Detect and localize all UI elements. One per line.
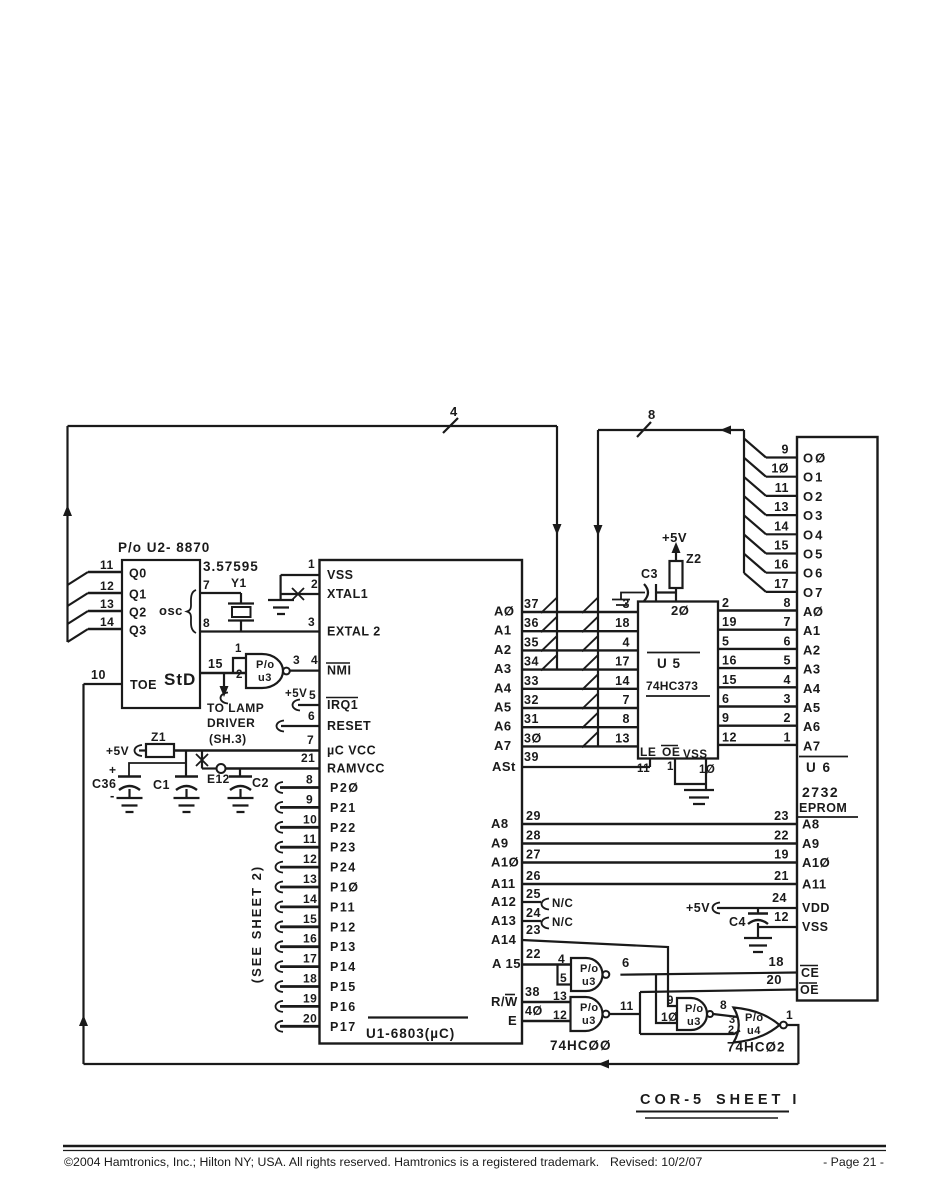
svg-text:28: 28 [526,829,541,843]
svg-text:P/o: P/o [685,1003,704,1015]
svg-text:12: 12 [774,910,789,924]
svg-text:14: 14 [100,615,114,629]
wire U1 P15 pin 18 [276,981,284,992]
gate U3c NAND pins 13 12 to 11 [571,997,603,1031]
wire gate input tie [233,658,246,673]
svg-text:(SEE SHEET 2): (SEE SHEET 2) [249,865,264,983]
svg-text:VSS: VSS [802,920,829,934]
svg-text:4: 4 [311,653,318,667]
svg-text:6: 6 [784,634,791,648]
svg-text:8: 8 [623,712,630,726]
bus tap 8-bus row A1 [582,616,599,632]
svg-text:9: 9 [782,443,789,457]
svg-text:22: 22 [526,947,541,961]
svg-text:A1Ø: A1Ø [802,855,830,870]
wire gate tie pin5 [558,965,572,985]
svg-text:©2004 Hamtronics, Inc.; Hilto: ©2004 Hamtronics, Inc.; Hilton NY; USA. … [64,1155,599,1169]
svg-text:A7: A7 [803,738,821,753]
svg-text:17: 17 [303,952,317,966]
svg-text:µC VCC: µC VCC [327,744,376,758]
svg-text:A13: A13 [491,913,516,928]
svg-text:6: 6 [622,955,630,970]
wire Z2 to U5 pin 20 [675,588,677,602]
svg-text:11: 11 [100,558,114,572]
wire NMI [290,669,320,671]
svg-text:O6: O6 [803,566,824,581]
squiggle +5V Z1 [135,745,143,756]
wire U3d out to U4 pin 3 [713,1014,738,1017]
svg-text:2: 2 [236,669,243,681]
svg-text:AØ: AØ [494,604,515,619]
svg-text:74HC373: 74HC373 [646,679,698,693]
svg-text:11: 11 [775,481,789,495]
svg-text:74HCØØ: 74HCØØ [550,1038,612,1053]
wire Z1 to uCVCC pin 7 [174,749,320,752]
arrow down on 8-bus [594,525,603,536]
svg-text:A1: A1 [803,623,821,638]
svg-text:R/W: R/W [491,994,518,1009]
svg-text:Y1: Y1 [231,576,247,590]
wire U1 P23 pin 11 [276,842,284,853]
svg-text:u3: u3 [687,1016,701,1028]
svg-text:31: 31 [524,712,539,726]
svg-text:24: 24 [772,891,787,905]
svg-text:O3: O3 [803,508,824,523]
svg-text:A2: A2 [803,642,821,657]
svg-text:10: 10 [91,668,106,682]
svg-text:u3: u3 [582,1015,596,1027]
svg-text:A9: A9 [491,836,509,851]
svg-text:RESET: RESET [327,719,371,733]
wire U1 P21 pin 9 [276,802,284,813]
wire A2 U5 to U6 [718,648,797,650]
svg-text:A3: A3 [803,662,821,677]
svg-text:OE: OE [662,745,680,759]
svg-text:14: 14 [303,892,317,906]
rule under EPROM [798,816,858,818]
svg-text:XTAL1: XTAL1 [327,587,368,601]
svg-text:5: 5 [560,971,567,985]
arrow down on 4-bus [553,524,562,535]
wire A10 U1 to U6 [522,861,797,863]
wire A6 U5 to U6 [718,725,797,727]
rule above U6 [799,756,848,758]
svg-text:Revised: 10/2/07: Revised: 10/2/07 [610,1155,702,1169]
svg-text:osc: osc [159,603,183,618]
wire U2 pin 8 EXTAL2 [200,630,320,632]
svg-text:A2: A2 [494,642,512,657]
wire U2 Q3 pin 14 [88,628,122,630]
wire C36 branch [129,751,186,777]
svg-text:22: 22 [774,829,789,843]
svg-text:23: 23 [774,809,789,823]
svg-text:2: 2 [728,1024,735,1036]
svg-text:VSS: VSS [683,749,708,761]
svg-text:29: 29 [526,809,541,823]
wire ASt up to U5 LE [649,759,651,768]
wire A1 U1 to U5 [522,630,638,632]
svg-text:8: 8 [203,616,210,630]
wire 8-bus vertical [597,430,599,746]
svg-text:8: 8 [648,407,656,422]
wire A4 U1 to U5 [522,688,638,690]
svg-text:E12: E12 [207,772,230,786]
svg-text:14: 14 [615,674,630,688]
wire A3 U5 to U6 [718,667,797,669]
X mark jumper E12 [196,754,208,766]
svg-text:13: 13 [303,872,317,886]
wire O3 [766,514,797,516]
op-amp gate U3a NAND [246,654,283,688]
svg-text:13: 13 [774,500,789,514]
wire to lamp driver branch [223,673,225,688]
svg-text:A4: A4 [494,680,512,695]
svg-text:A14: A14 [491,932,517,947]
ground under C4 [744,938,772,952]
svg-text:1Ø: 1Ø [771,462,789,476]
ground under C2 [228,798,254,812]
wire A11 U1 to U6 [522,883,797,885]
svg-text:20: 20 [767,972,782,987]
svg-text:15: 15 [208,657,223,671]
svg-text:1: 1 [786,1008,793,1022]
wire 4-bus vertical [556,426,558,670]
svg-text:18: 18 [615,616,630,630]
svg-text:7: 7 [203,578,210,592]
svg-text:O2: O2 [803,489,824,504]
svg-text:C4: C4 [729,915,746,929]
svg-text:36: 36 [524,616,539,630]
wire A2 U1 to U5 [522,649,638,651]
svg-text:11: 11 [303,832,317,846]
svg-text:5: 5 [309,688,316,702]
svg-text:4: 4 [450,404,458,419]
bus tap 4-bus row A2 [541,635,558,651]
wire C1 drop [185,751,187,777]
svg-text:17: 17 [615,655,630,669]
svg-text:P1Ø: P1Ø [330,881,360,895]
arrow up +5V [675,551,677,561]
svg-text:7: 7 [784,615,791,629]
bus tap 4-bus row A0 [541,597,558,613]
svg-text:34: 34 [524,655,539,669]
svg-text:Q3: Q3 [129,624,147,638]
svg-text:Q0: Q0 [129,567,147,581]
svg-text:4Ø: 4Ø [525,1004,543,1018]
rule above U5 [647,652,700,654]
bus tap 4-bus row A3 [541,655,558,671]
bus tap 8-bus row A3 [582,655,599,671]
wire O0 [766,456,797,458]
svg-text:StD: StD [164,670,196,689]
squiggle RESET [277,721,285,732]
wire bottom return to TOE [84,1063,799,1065]
IC U1 6803 box [320,560,523,1044]
wire A7 U5 to U6 [718,744,797,746]
wire ASt pin 39 [522,766,650,768]
svg-text:A8: A8 [491,816,509,831]
svg-text:21: 21 [301,751,315,765]
wire U1 P24 pin 12 [276,862,284,873]
wire top 4-bit bus horizontal [68,425,558,427]
wire left bus vertical [66,426,68,642]
underline title [636,1111,789,1113]
arrow left on 8-bus [720,426,731,435]
svg-text:9: 9 [667,995,674,1007]
wire U1 P10 pin 13 [276,882,284,893]
wire TOE [84,683,123,685]
ground under C1 [174,798,200,812]
svg-text:16: 16 [774,558,789,572]
wire A13 N/C stub [522,920,541,922]
svg-text:AØ: AØ [803,604,824,619]
svg-text:1Ø: 1Ø [661,1010,678,1024]
gate U3b NAND pins 4 5 to 6 [571,958,603,991]
rule below 74HC373 [646,695,710,697]
svg-text:VSS: VSS [327,568,354,582]
wire RESET pin 6 [281,725,320,727]
svg-text:P17: P17 [330,1020,357,1034]
svg-text:16: 16 [303,932,317,946]
bus tap O0 [744,439,766,458]
wire TOE vertical down [82,684,84,1064]
svg-text:CE: CE [801,966,819,980]
bus tap 8-bus row A2 [582,635,599,651]
svg-text:6: 6 [308,709,315,723]
ground near XTAL1 [268,600,294,614]
svg-text:U 6: U 6 [806,760,832,775]
wire U1 P13 pin 16 [276,941,284,952]
svg-text:A12: A12 [491,894,516,909]
svg-text:OØ: OØ [803,451,827,466]
svg-text:38: 38 [525,985,540,999]
wire A14 pin 23 [522,940,677,1006]
wire C3 to ground [621,593,645,600]
svg-text:+5V: +5V [686,901,710,915]
bus tap O3 [744,496,766,515]
gate U3d NAND pins 9 10 to 8 [677,998,707,1030]
wire A5 U5 to U6 [718,705,797,707]
svg-text:N/C: N/C [552,898,573,910]
svg-text:C1: C1 [153,778,170,792]
svg-text:15: 15 [303,912,317,926]
svg-text:4: 4 [558,952,565,966]
svg-text:20: 20 [303,1011,317,1025]
svg-text:32: 32 [524,693,539,707]
svg-text:P/o: P/o [580,963,599,975]
svg-text:u3: u3 [582,976,596,988]
svg-text:2732: 2732 [802,784,839,800]
svg-text:O5: O5 [803,547,824,562]
wire U5 OE pin 1 stub [675,759,706,785]
svg-text:Z2: Z2 [686,552,702,566]
wire A1 U5 to U6 [718,629,797,631]
svg-text:+5V: +5V [662,530,687,545]
svg-text:TO LAMP: TO LAMP [207,701,264,715]
svg-text:P14: P14 [330,960,357,974]
IC U2 8870 box [122,560,200,708]
wire gate U3c out to OE node [609,1013,640,1015]
wire O7 [766,591,797,593]
bus slash 8 [637,422,651,437]
wire U2 pin 7 to crystal [200,592,241,594]
label U1-6803 rule [368,1016,468,1018]
wire OE node to U4 pin 2 [640,1031,740,1035]
svg-text:u3: u3 [258,672,272,684]
bus tap O5 [744,535,766,554]
ground under U5 [684,790,714,804]
wire U1 P16 pin 19 [276,1001,284,1012]
wire ground drop [280,575,282,600]
svg-text:A6: A6 [494,719,512,734]
X mark on XTAL1 wire [292,588,304,600]
svg-text:N/C: N/C [552,917,573,929]
bus tap O4 [744,515,766,534]
svg-text:P/o: P/o [256,659,275,671]
svg-text:-: - [110,788,115,803]
wire O6 [766,572,797,574]
wire U1 P17 pin 20 [276,1021,284,1032]
svg-text:A5: A5 [803,700,821,715]
svg-text:8: 8 [306,773,313,787]
svg-text:OE: OE [800,983,819,997]
svg-text:13: 13 [615,731,630,745]
wire U1 P20 pin 8 [276,782,284,793]
svg-text:A8: A8 [802,817,820,832]
svg-text:18: 18 [303,972,317,986]
wire A7 U1 to U5 [522,745,638,747]
ground under C36 [117,798,143,812]
svg-text:15: 15 [722,673,737,687]
wire U1 XTAL1 pin 2 [281,593,320,595]
svg-text:21: 21 [774,869,789,883]
svg-text:9: 9 [306,792,313,806]
bus tap O1 [744,458,766,477]
svg-text:10: 10 [303,812,317,826]
svg-text:A11: A11 [802,877,827,892]
bus tap 8-bus row A7 [582,731,599,747]
bus tap O7 [744,573,766,592]
svg-text:24: 24 [526,906,541,920]
brace OSC [187,590,196,633]
svg-text:Q2: Q2 [129,606,147,620]
wire data bus vertical [743,430,745,573]
wire U2 Q0 pin 11 [88,571,122,573]
wire A0 U1 to U5 [522,611,638,613]
bus tap 8-bus row A4 [582,674,599,690]
svg-text:2: 2 [722,596,729,610]
svg-text:16: 16 [722,654,737,668]
svg-text:23: 23 [526,923,541,937]
svg-text:TOE: TOE [130,678,157,692]
wire A12 N/C stub [522,901,541,903]
arrow up on left bus [63,505,72,516]
svg-text:8: 8 [720,998,727,1012]
wire U1 P22 pin 10 [276,822,284,833]
svg-text:6: 6 [722,692,729,706]
svg-text:RAMVCC: RAMVCC [327,762,385,776]
wire U1 P14 pin 17 [276,961,284,972]
svg-text:13: 13 [553,989,567,1003]
bus tap O6 [744,554,766,573]
svg-text:A4: A4 [803,681,821,696]
squiggle IRQ1 [293,700,301,711]
svg-text:4: 4 [623,635,630,649]
svg-text:P21: P21 [330,801,357,815]
svg-text:P12: P12 [330,920,357,934]
svg-text:- Page 21 -: - Page 21 - [823,1155,884,1169]
svg-text:EXTAL 2: EXTAL 2 [327,625,381,639]
wire OE node vertical [639,992,641,1034]
wire O5 [766,552,797,554]
svg-text:14: 14 [774,519,789,533]
wire O2 [766,495,797,497]
wire +5V to Z1 [139,749,146,751]
wire 8-bus top horizontal [598,429,744,431]
svg-text:2Ø: 2Ø [671,603,689,618]
svg-text:P23: P23 [330,841,357,855]
wire A6 U1 to U5 [522,726,638,728]
wire A3 U1 to U5 [522,668,638,670]
svg-text:P11: P11 [330,900,356,914]
gate U4 NOR pins 3 2 to 1 [734,1008,780,1043]
wire R/W pin 38 [522,1001,571,1003]
svg-text:3: 3 [308,615,315,629]
svg-text:A1Ø: A1Ø [491,855,519,870]
svg-text:P13: P13 [330,940,357,954]
svg-text:A11: A11 [491,876,516,891]
wire U5 VSS pin 10 stub [705,759,707,791]
IC U6 2732 EPROM box [797,437,878,1001]
wire VDD pin 24 [717,907,797,909]
bus tap 8-bus row A5 [582,693,599,709]
svg-text:12: 12 [722,730,737,744]
footer rule [63,1145,886,1147]
svg-text:A7: A7 [494,738,512,753]
svg-text:A 15: A 15 [492,956,521,971]
svg-text:37: 37 [524,597,539,611]
svg-text:3.57595: 3.57595 [203,559,259,574]
wire StD to gate [200,672,246,674]
svg-text:13: 13 [100,597,114,611]
svg-text:5: 5 [784,654,791,668]
wire A4 U5 to U6 [718,686,797,688]
svg-text:+: + [109,763,117,777]
wire VSS pin 12 [758,926,797,928]
svg-text:+5V: +5V [285,688,307,700]
svg-text:9: 9 [722,711,729,725]
svg-text:P2Ø: P2Ø [330,781,360,795]
wire CE from gate U3b [620,973,797,975]
svg-text:O7: O7 [803,585,824,600]
wire U2 Q1 pin 12 [88,592,122,594]
svg-text:A9: A9 [802,836,820,851]
svg-text:7: 7 [307,733,314,747]
wire IRQ1 pin 5 [298,704,320,706]
svg-text:1: 1 [308,557,315,571]
svg-text:(SH.3): (SH.3) [209,732,247,746]
ground near C3 [612,600,630,606]
squiggle VDD [713,903,721,914]
svg-text:27: 27 [526,848,541,862]
svg-text:1: 1 [667,761,674,773]
svg-text:O4: O4 [803,527,824,542]
svg-text:25: 25 [526,887,541,901]
wire A15 pin 22 [522,963,571,965]
svg-text:P15: P15 [330,980,357,994]
svg-text:2: 2 [784,711,791,725]
IC U5 74HC373 box [638,602,718,759]
